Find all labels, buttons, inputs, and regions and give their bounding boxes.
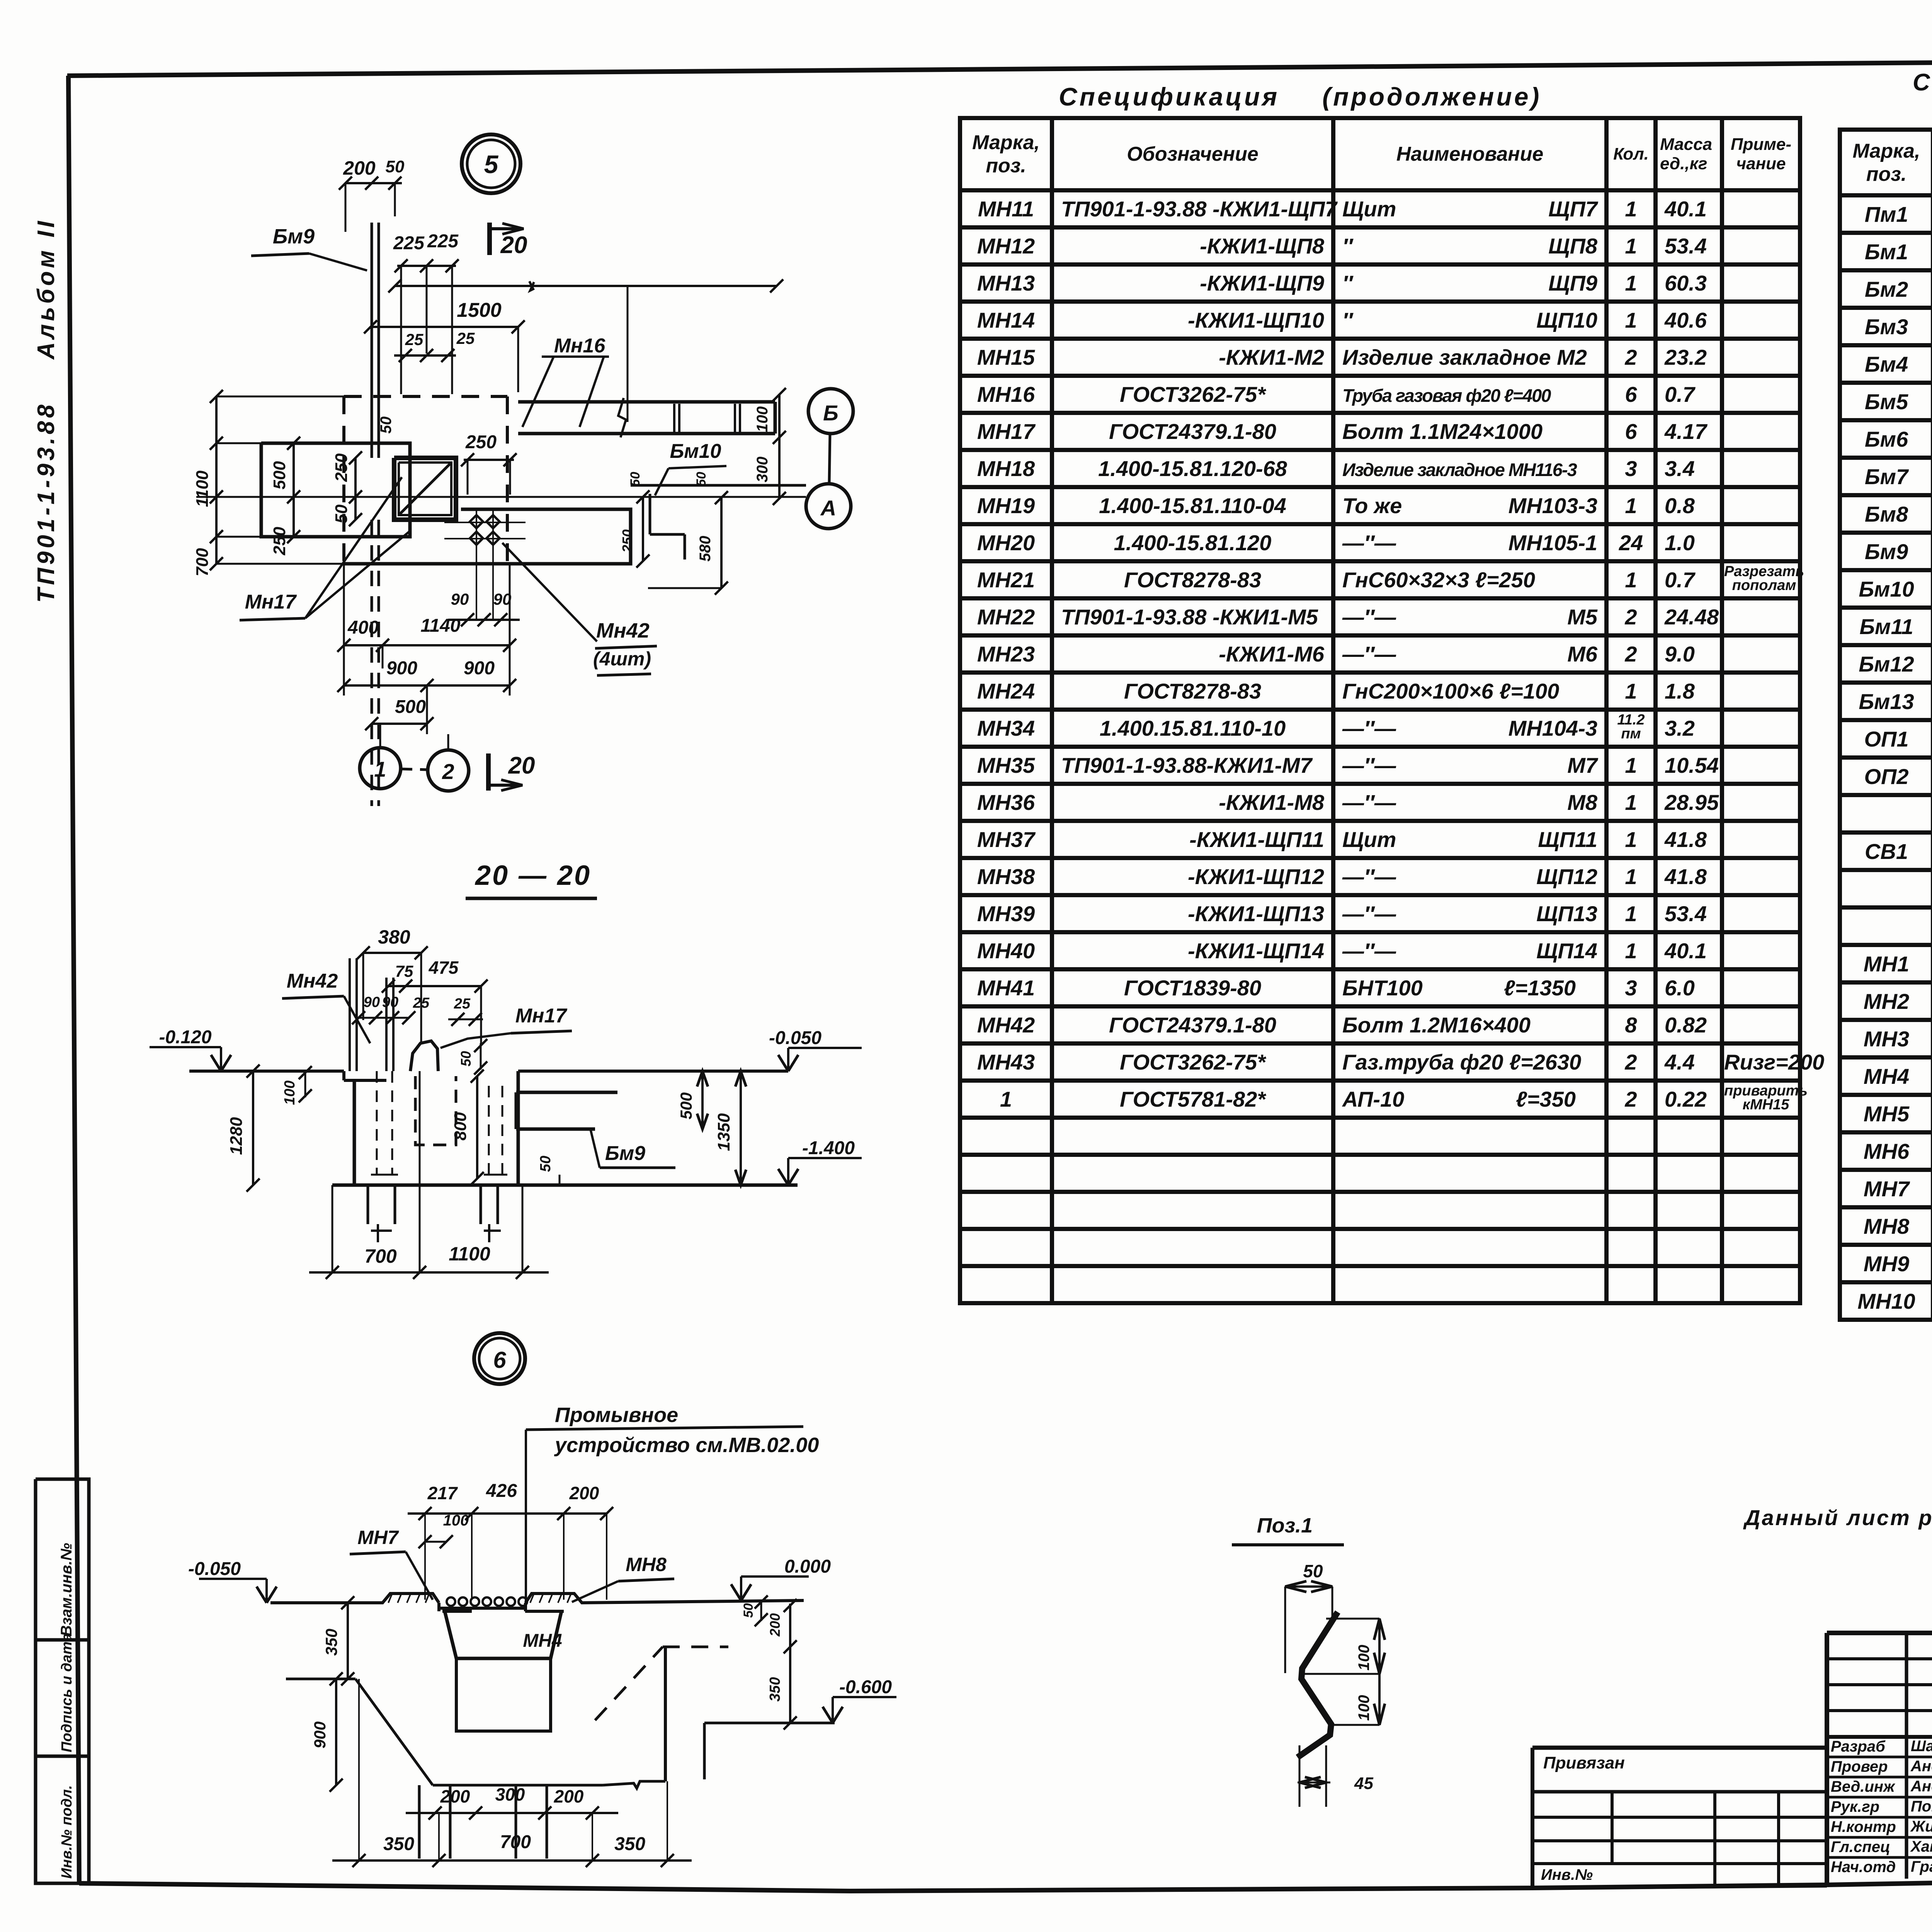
svg-text:100: 100	[443, 1512, 469, 1529]
svg-text:300: 300	[754, 457, 771, 483]
svg-text:200: 200	[343, 157, 376, 179]
svg-text:50: 50	[537, 1156, 554, 1172]
svg-text:90: 90	[493, 590, 512, 608]
svg-text:Бм10: Бм10	[670, 440, 721, 463]
svg-text:90: 90	[451, 590, 469, 608]
svg-text:-0.050: -0.050	[188, 1559, 241, 1579]
svg-text:Мн42: Мн42	[287, 970, 338, 992]
svg-text:580: 580	[697, 536, 714, 562]
svg-text:МН7: МН7	[357, 1527, 399, 1548]
svg-text:500: 500	[395, 697, 426, 717]
svg-text:50: 50	[386, 157, 405, 176]
svg-text:МН8: МН8	[626, 1554, 667, 1575]
svg-text:25: 25	[413, 995, 430, 1011]
svg-text:250: 250	[332, 453, 351, 482]
svg-text:100: 100	[754, 406, 771, 432]
svg-text:900: 900	[386, 658, 417, 679]
svg-text:20 — 20: 20 — 20	[474, 860, 591, 891]
svg-text:90: 90	[364, 994, 380, 1010]
svg-text:800: 800	[451, 1112, 470, 1141]
svg-text:0.000: 0.000	[784, 1556, 831, 1577]
svg-text:-0.120: -0.120	[159, 1027, 211, 1048]
svg-text:(4шт): (4шт)	[593, 648, 651, 670]
svg-text:225: 225	[427, 231, 459, 252]
svg-text:75: 75	[395, 962, 413, 980]
svg-text:350: 350	[614, 1834, 645, 1854]
svg-text:Взам.инв.№: Взам.инв.№	[58, 1543, 75, 1636]
svg-text:Инв.№ подл.: Инв.№ подл.	[59, 1785, 75, 1879]
svg-text:350: 350	[322, 1629, 340, 1656]
svg-text:-0.050: -0.050	[769, 1028, 821, 1048]
svg-text:700: 700	[500, 1832, 531, 1852]
svg-text:Мн16: Мн16	[554, 335, 606, 357]
svg-text:100: 100	[282, 1080, 298, 1105]
svg-text:50: 50	[458, 1051, 474, 1066]
svg-text:250: 250	[270, 527, 289, 556]
svg-text:1100: 1100	[193, 470, 212, 507]
svg-text:350: 350	[767, 1677, 783, 1701]
svg-text:Бм9: Бм9	[605, 1142, 645, 1165]
svg-text:устройство см.МВ.02.00: устройство см.МВ.02.00	[554, 1434, 819, 1457]
svg-text:200: 200	[569, 1483, 599, 1503]
svg-text:380: 380	[378, 926, 410, 948]
svg-text:20: 20	[508, 752, 535, 779]
svg-text:90: 90	[382, 994, 398, 1010]
svg-text:100: 100	[1355, 1645, 1372, 1671]
svg-text:1280: 1280	[227, 1117, 246, 1155]
svg-text:Мн42: Мн42	[596, 619, 650, 642]
svg-text:-0.600: -0.600	[839, 1677, 892, 1697]
svg-text:200: 200	[554, 1786, 584, 1806]
svg-text:500: 500	[270, 461, 289, 490]
svg-text:900: 900	[464, 658, 495, 679]
svg-text:25: 25	[456, 329, 475, 347]
svg-text:2: 2	[442, 759, 454, 784]
svg-text:1: 1	[374, 757, 386, 781]
svg-text:900: 900	[311, 1721, 329, 1748]
svg-text:50: 50	[628, 472, 643, 486]
svg-text:МН4: МН4	[523, 1631, 562, 1651]
svg-text:475: 475	[429, 957, 459, 978]
svg-text:50: 50	[378, 417, 395, 434]
svg-text:700: 700	[193, 548, 212, 577]
svg-text:А: А	[820, 496, 836, 520]
svg-text:Поз.1: Поз.1	[1257, 1514, 1313, 1537]
svg-text:50: 50	[741, 1603, 756, 1618]
svg-text:50: 50	[332, 504, 351, 523]
svg-text:217: 217	[427, 1483, 458, 1503]
svg-text:25: 25	[454, 996, 471, 1012]
svg-text:50: 50	[694, 472, 709, 486]
svg-text:400: 400	[347, 617, 379, 638]
svg-text:700: 700	[364, 1245, 397, 1267]
svg-text:6: 6	[493, 1347, 506, 1373]
svg-text:200: 200	[767, 1613, 783, 1637]
svg-text:Мн17: Мн17	[245, 591, 297, 613]
svg-text:ТП901-1-93.88 Альбом II: ТП901-1-93.88 Альбом II	[33, 218, 60, 603]
svg-text:100: 100	[1355, 1695, 1372, 1721]
svg-text:25: 25	[405, 330, 423, 349]
svg-text:250: 250	[465, 432, 497, 452]
svg-text:20: 20	[500, 232, 527, 259]
svg-text:Подпись и дата: Подпись и дата	[59, 1633, 75, 1752]
svg-text:Бм9: Бм9	[273, 225, 315, 248]
svg-text:Б: Б	[823, 401, 838, 425]
svg-text:225: 225	[393, 233, 425, 253]
svg-text:426: 426	[486, 1481, 517, 1501]
svg-text:-1.400: -1.400	[802, 1138, 855, 1158]
svg-text:1500: 1500	[457, 299, 502, 321]
svg-text:Промывное: Промывное	[555, 1403, 678, 1427]
svg-text:5: 5	[484, 150, 499, 179]
svg-text:1140: 1140	[420, 616, 461, 636]
svg-text:50: 50	[1303, 1561, 1323, 1581]
svg-text:350: 350	[383, 1834, 414, 1854]
svg-text:Мн17: Мн17	[515, 1005, 568, 1027]
svg-text:500: 500	[677, 1092, 695, 1119]
svg-text:200: 200	[440, 1786, 470, 1806]
svg-text:1350: 1350	[714, 1113, 733, 1151]
svg-text:300: 300	[495, 1784, 525, 1804]
svg-text:250: 250	[619, 529, 635, 553]
svg-text:45: 45	[1354, 1774, 1373, 1793]
svg-text:1100: 1100	[449, 1243, 490, 1265]
